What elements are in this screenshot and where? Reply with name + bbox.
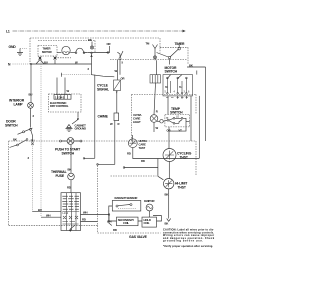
ground bbox=[9, 45, 28, 56]
lamp wire BU bbox=[29, 64, 33, 103]
wire bbox=[119, 60, 121, 75]
svg-text:BK: BK bbox=[68, 168, 72, 172]
gas valve coil block bbox=[61, 193, 81, 232]
wire WH to valve bbox=[41, 214, 61, 218]
electronic dry control U3 bbox=[49, 78, 82, 113]
wire RD out bbox=[81, 218, 98, 222]
svg-text:OR: OR bbox=[107, 42, 111, 46]
cabinet dashed enclosure bbox=[9, 141, 196, 225]
cycle signal bbox=[97, 60, 124, 92]
motor switch box U2 bbox=[163, 66, 193, 115]
wire RD from ultra thst bbox=[127, 135, 133, 156]
svg-text:LO: LO bbox=[176, 116, 179, 119]
valve top wire bbox=[81, 211, 110, 216]
svg-text:FUSE: FUSE bbox=[56, 174, 65, 178]
wire 3 drop bbox=[28, 136, 33, 212]
timer cam contact bbox=[75, 48, 87, 53]
svg-text:RADIANT SENSOR: RADIANT SENSOR bbox=[115, 196, 138, 200]
svg-text:VT: VT bbox=[179, 128, 183, 132]
wire N feed bbox=[31, 63, 92, 65]
door switch S1 bbox=[5, 120, 34, 148]
svg-text:BU: BU bbox=[38, 208, 42, 212]
svg-text:IGNITOR: IGNITOR bbox=[144, 199, 155, 203]
svg-text:OR: OR bbox=[121, 77, 125, 81]
dashed row bbox=[61, 74, 91, 76]
svg-text:COIL: COIL bbox=[123, 221, 129, 225]
contact mid console bbox=[117, 42, 157, 61]
svg-text:BU: BU bbox=[29, 93, 33, 97]
terminal arrows OR bbox=[106, 42, 111, 54]
svg-text:RD: RD bbox=[67, 186, 71, 190]
svg-text:RD: RD bbox=[127, 152, 131, 156]
stub bbox=[60, 73, 62, 77]
wire right verticals bbox=[191, 96, 199, 158]
svg-text:BU: BU bbox=[44, 60, 48, 64]
hi-limit thermostat bbox=[164, 179, 189, 226]
svg-text:RD: RD bbox=[113, 228, 117, 232]
console lower dashed box bbox=[132, 94, 197, 141]
svg-text:*Verify proper operation after: *Verify proper operation after servicing… bbox=[163, 245, 213, 248]
svg-text:MOTOR: MOTOR bbox=[42, 50, 52, 54]
svg-text:BK: BK bbox=[165, 222, 169, 226]
svg-text:CHIME: CHIME bbox=[98, 115, 109, 119]
cabinet ground bbox=[66, 112, 87, 131]
wire vertical mid bbox=[83, 67, 95, 159]
svg-text:R: R bbox=[156, 110, 158, 114]
wire row 167 bbox=[123, 167, 158, 169]
wire y64 drop bbox=[91, 64, 93, 75]
wire bbox=[92, 75, 115, 77]
thermal fuse F1 bbox=[51, 170, 74, 193]
wire bbox=[88, 52, 110, 54]
svg-text:THST: THST bbox=[180, 155, 189, 159]
wire chime down bbox=[97, 121, 115, 166]
node N bbox=[8, 63, 31, 67]
svg-text:BK: BK bbox=[165, 193, 169, 197]
wire right drop bbox=[187, 67, 206, 141]
console dashed enclosure bbox=[30, 38, 187, 64]
wire bbox=[70, 145, 72, 173]
svg-text:L1 L2: L1 L2 bbox=[63, 212, 69, 215]
svg-text:SWITCH: SWITCH bbox=[165, 70, 178, 74]
node L1 bbox=[6, 30, 186, 34]
svg-text:SWITCH: SWITCH bbox=[5, 124, 18, 128]
svg-text:RD: RD bbox=[82, 218, 86, 222]
push to start S3 bbox=[55, 138, 82, 156]
interior lamp E1 bbox=[9, 99, 33, 109]
wire to chime bbox=[116, 91, 118, 114]
ultra care light E2 bbox=[133, 83, 159, 132]
svg-text:BU: BU bbox=[179, 86, 182, 89]
svg-text:DRY CONTROL: DRY CONTROL bbox=[50, 104, 69, 108]
svg-text:OR: OR bbox=[167, 129, 171, 133]
svg-text:TIMER: TIMER bbox=[175, 42, 185, 46]
timer motor contacts bbox=[36, 57, 57, 65]
cycling thermostat bbox=[163, 149, 192, 179]
temp switch S2 bbox=[157, 107, 190, 149]
wire 4 drop bbox=[40, 60, 42, 218]
svg-text:GROUND: GROUND bbox=[75, 127, 87, 131]
svg-text:WH: WH bbox=[83, 211, 87, 215]
buzzer box bbox=[150, 75, 161, 83]
timer motor winding bbox=[57, 46, 76, 54]
svg-text:WH: WH bbox=[46, 214, 50, 218]
svg-text:BK: BK bbox=[165, 86, 168, 89]
node junction N-lamp bbox=[30, 63, 32, 65]
svg-text:LIGHT: LIGHT bbox=[133, 120, 141, 124]
timer motor TM box bbox=[38, 46, 57, 57]
svg-text:THST: THST bbox=[178, 186, 187, 190]
svg-text:GAS VALVE: GAS VALVE bbox=[129, 235, 148, 239]
wire bbox=[31, 108, 35, 127]
svg-text:SIGNAL: SIGNAL bbox=[97, 88, 109, 92]
secondary coil bbox=[109, 215, 142, 226]
ignitor bbox=[144, 199, 155, 215]
timer switch T1 bbox=[157, 42, 189, 64]
svg-text:THST: THST bbox=[139, 146, 146, 150]
svg-text:SWITCH: SWITCH bbox=[170, 111, 183, 115]
svg-text:R: R bbox=[118, 122, 120, 126]
wire BU to valve bbox=[33, 208, 62, 212]
radiant sensor bbox=[107, 196, 141, 232]
contact arrows bbox=[90, 52, 92, 64]
svg-text:LAMP: LAMP bbox=[14, 103, 24, 107]
svg-text:1 2 3 4 5: 1 2 3 4 5 bbox=[55, 95, 65, 99]
svg-text:SWITCH: SWITCH bbox=[62, 152, 75, 156]
svg-text:L1: L1 bbox=[6, 30, 10, 34]
svg-text:COIL: COIL bbox=[144, 221, 150, 225]
svg-text:GND: GND bbox=[9, 45, 17, 49]
svg-text:RD: RD bbox=[141, 159, 145, 163]
svg-text:grounding before use.: grounding before use. bbox=[163, 240, 203, 243]
svg-text:BK: BK bbox=[88, 38, 92, 42]
holding coil bbox=[142, 215, 162, 227]
caution note bbox=[163, 229, 215, 248]
chime H1 bbox=[98, 113, 120, 126]
timer contact node BK bbox=[88, 38, 94, 49]
wire bbox=[156, 60, 158, 74]
ultra care thst bbox=[128, 139, 199, 180]
burner dashed box bbox=[98, 166, 161, 234]
